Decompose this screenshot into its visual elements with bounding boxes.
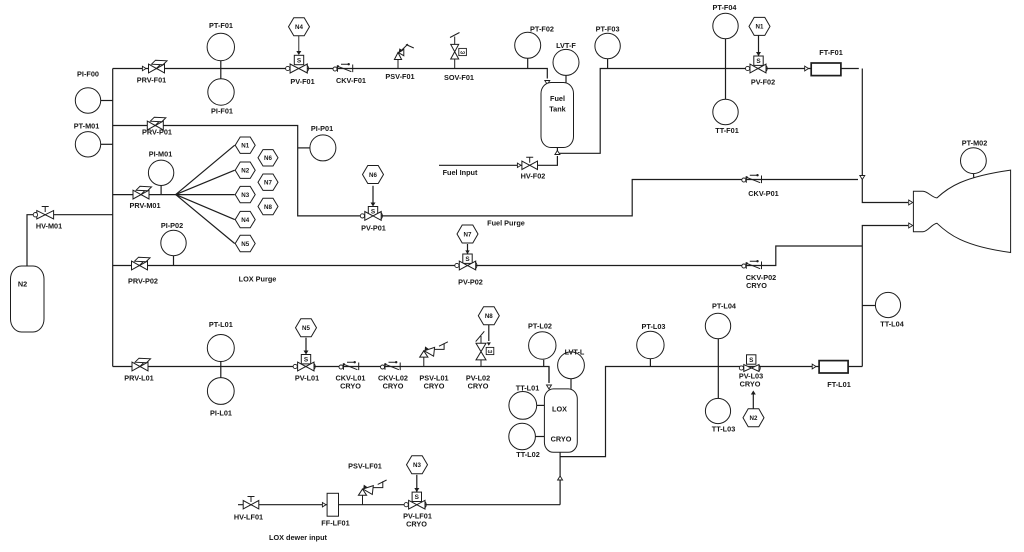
- fuel tank: [541, 83, 574, 148]
- gauge TT-L01: [509, 392, 537, 420]
- wire PI-M01 stem: [160, 186, 162, 195]
- svg-text:PI-P02: PI-P02: [161, 221, 183, 230]
- wire main manifold vertical: [112, 69, 114, 367]
- wire PT-F02 stem: [527, 58, 529, 68]
- wire PT-L04 TT-L03 stem: [717, 339, 719, 399]
- svg-text:N2: N2: [18, 280, 27, 289]
- hexagon N3 dewer: [407, 456, 428, 474]
- wire N1 to PV-F02: [758, 36, 760, 57]
- wire HV-M01 branch: [27, 215, 113, 266]
- gauge TT-L04: [875, 292, 900, 317]
- arrow fuel into junction: [860, 176, 865, 180]
- svg-text:LOX: LOX: [552, 405, 567, 414]
- svg-text:PV-L01: PV-L01: [295, 374, 319, 383]
- valve PV-L01: [298, 362, 314, 371]
- wire PT-M01 stem: [101, 143, 113, 145]
- svg-text:FF-LF01: FF-LF01: [321, 519, 349, 528]
- valve PRV-P01: [147, 121, 163, 130]
- wire fuel feed riser: [861, 69, 863, 176]
- wire PT-M02 stem: [973, 173, 975, 178]
- svg-text:N6: N6: [369, 172, 377, 179]
- svg-text:PV-P02: PV-P02: [458, 277, 483, 286]
- gauge PI-L01: [207, 378, 234, 405]
- wire PT-L03 stem: [649, 359, 651, 367]
- wire N8 to PV-L02: [488, 325, 490, 341]
- svg-text:LVT-L: LVT-L: [565, 348, 585, 357]
- gauge PT-M02: [961, 148, 987, 174]
- svg-text:PT-M02: PT-M02: [962, 139, 988, 148]
- wire engine ox inlet: [862, 226, 908, 247]
- relief valve PSV-L01: [423, 357, 425, 366]
- wire fuel tank outlet: [557, 69, 858, 154]
- hexagon N2 manifold: [235, 162, 255, 178]
- arrow into fuel tank bottom: [555, 151, 560, 155]
- wire PI-P02 stem: [173, 256, 175, 266]
- svg-text:CRYO: CRYO: [551, 435, 572, 444]
- svg-text:CKV-F01: CKV-F01: [336, 76, 366, 85]
- arrow into PV-F02 solenoid: [756, 52, 761, 56]
- filter FF-LF01: [327, 493, 338, 516]
- hexagon N2 lox: [743, 409, 764, 427]
- valve PRV-P02: [132, 261, 148, 270]
- gauge PT-F01: [207, 33, 234, 60]
- arrow into PV-F01 solenoid: [296, 51, 301, 55]
- gauge PT-L03: [637, 331, 664, 358]
- valve PRV-F01: [149, 64, 165, 73]
- svg-text:PT-F02: PT-F02: [530, 25, 554, 34]
- wire PI-F00 stem: [101, 100, 113, 102]
- svg-text:PSV-LF01: PSV-LF01: [348, 462, 382, 471]
- svg-text:TT-L01: TT-L01: [516, 384, 540, 393]
- hexagon N5 lox: [296, 319, 317, 337]
- svg-text:HV-LF01: HV-LF01: [234, 513, 263, 522]
- gauge PI-M01: [148, 160, 173, 185]
- wire N7 to PV-P02: [467, 244, 469, 254]
- arrow engine ox inlet: [909, 223, 913, 228]
- svg-text:LOX dewer input: LOX dewer input: [269, 533, 328, 542]
- gauge PI-P01: [310, 135, 336, 161]
- wire PT-F03 stem: [607, 59, 609, 69]
- solenoid box PV-LF01: [412, 492, 421, 501]
- valve PV-F02: [750, 64, 766, 73]
- svg-text:S: S: [465, 256, 470, 263]
- gauge LVT-F: [553, 49, 579, 75]
- svg-text:PSV-F01: PSV-F01: [385, 72, 414, 81]
- svg-text:N7: N7: [264, 180, 272, 187]
- check valve CKV-P02: [742, 264, 746, 268]
- wire N6 to PV-P01: [372, 186, 374, 205]
- arrow into PV-L01: [304, 351, 309, 355]
- svg-text:S: S: [756, 58, 761, 65]
- gauge LVT-L: [558, 352, 585, 379]
- svg-text:PI-M01: PI-M01: [149, 150, 173, 159]
- wire LVT-F stem: [565, 76, 567, 83]
- wire N3 to PV-LF01: [416, 475, 418, 492]
- svg-text:FT-L01: FT-L01: [827, 380, 851, 389]
- flow meter FT-F01: [811, 63, 841, 76]
- svg-text:PV-F01: PV-F01: [290, 77, 314, 86]
- svg-text:Fuel: Fuel: [550, 94, 565, 103]
- svg-text:PI-F01: PI-F01: [211, 107, 233, 116]
- hexagon N6 spare: [258, 150, 278, 166]
- wire fuel pressurization line: [113, 69, 548, 79]
- gauge PT-F03: [595, 33, 620, 58]
- gauge PT-L01: [207, 335, 234, 362]
- svg-text:LVT-F: LVT-F: [556, 41, 576, 50]
- svg-text:N4: N4: [241, 217, 249, 224]
- svg-text:PT-F04: PT-F04: [713, 3, 738, 12]
- hexagon N7 purge: [457, 225, 478, 243]
- svg-text:TT-L04: TT-L04: [880, 320, 904, 329]
- svg-text:CRYO: CRYO: [406, 519, 427, 528]
- svg-text:SOV-F01: SOV-F01: [444, 73, 474, 82]
- solenoid box PV-P02: [463, 254, 472, 263]
- gauge PI-F00: [75, 88, 100, 113]
- wire PT-L01 PI-L01 stem: [220, 362, 222, 378]
- wire LOX dewer input line: [238, 504, 560, 506]
- N2 bottle: [11, 266, 45, 332]
- svg-text:PT-M01: PT-M01: [74, 122, 100, 131]
- svg-text:PT-L04: PT-L04: [712, 302, 737, 311]
- svg-text:Tank: Tank: [549, 105, 566, 114]
- svg-text:PRV-P01: PRV-P01: [142, 128, 172, 137]
- svg-text:N3: N3: [241, 192, 249, 199]
- svg-text:FT-F01: FT-F01: [819, 48, 843, 57]
- valve HV-LF01: [243, 501, 259, 509]
- gauge TT-L02: [509, 423, 536, 450]
- valve HV-M01: [37, 211, 54, 219]
- svg-text:N8: N8: [485, 313, 493, 320]
- relief valve PSV-F01: [397, 60, 399, 69]
- svg-text:PI-P01: PI-P01: [311, 124, 333, 133]
- hexagon N4 manifold: [235, 211, 255, 227]
- svg-text:N6: N6: [264, 155, 272, 162]
- svg-text:PRV-L01: PRV-L01: [124, 374, 153, 383]
- arrow N2 into PV-L03: [751, 391, 756, 395]
- wire PRV-M01 manifold: [113, 194, 176, 196]
- wire fan line to N1: [176, 145, 235, 194]
- wire PT-F01 PI-F01 stem: [220, 61, 222, 79]
- svg-text:N5: N5: [302, 325, 310, 332]
- svg-text:N1: N1: [756, 24, 764, 31]
- svg-text:PT-L02: PT-L02: [528, 322, 552, 331]
- solenoid box PV-F02: [754, 56, 763, 65]
- svg-text:PI-F00: PI-F00: [77, 70, 99, 79]
- solenoid box PV-P01: [368, 207, 377, 216]
- svg-text:CKV-P01: CKV-P01: [748, 189, 778, 198]
- hexagon N1: [749, 17, 770, 35]
- svg-text:N2: N2: [750, 415, 758, 422]
- solenoid box PV-F01: [294, 55, 303, 64]
- hexagon N7 spare: [258, 174, 278, 190]
- hexagon N1 manifold: [235, 137, 255, 153]
- wire LOX tank bottom outlet: [559, 452, 561, 504]
- LOX tank: [544, 389, 577, 452]
- gauge TT-F01: [713, 99, 738, 124]
- svg-text:TT-L02: TT-L02: [516, 450, 540, 459]
- svg-text:TT-F01: TT-F01: [715, 126, 739, 135]
- hexagon N4: [289, 18, 310, 36]
- wire LOX feed line: [560, 367, 862, 457]
- wire fan line to N4: [176, 195, 235, 220]
- wire N2 to PV-L03: [752, 392, 754, 409]
- svg-text:PRV-F01: PRV-F01: [137, 76, 166, 85]
- relief valve PSV-LF01: [362, 495, 364, 504]
- svg-text:S: S: [749, 357, 754, 364]
- hexagon N3 manifold: [235, 186, 255, 202]
- arrow into PV-P01: [371, 203, 376, 207]
- svg-text:ω: ω: [460, 50, 465, 56]
- svg-text:CRYO: CRYO: [340, 382, 361, 391]
- flow arrow fuel input: [517, 163, 521, 167]
- svg-text:S: S: [304, 357, 309, 364]
- wire engine fuel inlet: [862, 180, 908, 203]
- gauge PT-F04: [713, 13, 738, 38]
- svg-text:CRYO: CRYO: [424, 382, 445, 391]
- arrow engine fuel inlet: [909, 200, 913, 205]
- gauge PT-L02: [529, 332, 556, 359]
- valve PRV-L01: [132, 362, 148, 371]
- flow arrow into FF-LF01: [322, 503, 326, 507]
- wire fuel purge line: [113, 126, 858, 216]
- svg-text:Fuel Input: Fuel Input: [443, 168, 478, 177]
- svg-text:PV-F02: PV-F02: [751, 78, 775, 87]
- wire LOX riser: [861, 246, 863, 367]
- wire PI-P01 stem: [298, 147, 310, 149]
- svg-text:N2: N2: [241, 168, 249, 175]
- svg-text:N1: N1: [241, 143, 249, 150]
- svg-text:N4: N4: [295, 24, 303, 31]
- svg-text:PT-L01: PT-L01: [209, 320, 233, 329]
- svg-text:PT-F01: PT-F01: [209, 21, 233, 30]
- check valve CKV-L02: [381, 365, 385, 369]
- svg-text:N8: N8: [264, 204, 272, 211]
- svg-text:N5: N5: [241, 241, 249, 248]
- wire TT-L04 stem: [862, 305, 875, 307]
- svg-text:N7: N7: [464, 231, 472, 238]
- wire LOX pressurization line: [113, 367, 549, 383]
- hexagon N8 lox: [478, 307, 499, 325]
- valve PV-L03: [744, 365, 759, 372]
- svg-text:S: S: [415, 494, 420, 501]
- gauge TT-L03: [705, 398, 730, 423]
- wire LVT-L stem: [570, 379, 572, 389]
- flow meter FT-L01: [819, 361, 848, 373]
- svg-text:S: S: [297, 57, 302, 64]
- valve SOV-F01: [451, 44, 459, 59]
- wire fan line to N3: [176, 194, 235, 196]
- svg-text:TT-L03: TT-L03: [712, 425, 736, 434]
- hexagon N6 purge: [363, 166, 384, 184]
- wire PT-F04 TT-F01 stem: [725, 39, 727, 100]
- svg-text:CRYO: CRYO: [746, 281, 767, 290]
- svg-text:HV-F02: HV-F02: [521, 172, 546, 181]
- svg-text:PT-L03: PT-L03: [642, 322, 666, 331]
- flow arrow into FT-F01: [805, 66, 809, 71]
- wire PT-L02 stem: [543, 360, 545, 367]
- gauge PT-F02: [515, 32, 541, 58]
- hexagon N5 manifold: [235, 235, 255, 251]
- svg-text:Fuel Purge: Fuel Purge: [487, 218, 525, 227]
- arrow into LOX tank bottom: [558, 476, 563, 480]
- wire fuel input line: [439, 156, 557, 165]
- gauge PT-M01: [75, 132, 100, 157]
- check valve CKV-F01: [333, 67, 337, 71]
- svg-text:PRV-P02: PRV-P02: [128, 277, 158, 286]
- valve HV-F02: [522, 161, 538, 169]
- wire LOX tank inlet drop: [548, 367, 550, 384]
- check valve CKV-L01: [339, 365, 343, 369]
- svg-text:PRV-M01: PRV-M01: [129, 201, 160, 210]
- svg-text:CRYO: CRYO: [740, 379, 761, 388]
- hexagon N8 spare: [258, 198, 278, 214]
- valve PV-L02: [476, 343, 486, 360]
- valve PV-P01: [365, 212, 381, 221]
- solenoid box PV-L03: [747, 355, 756, 364]
- gauge PT-L04: [705, 313, 730, 338]
- svg-text:PI-L01: PI-L01: [210, 409, 232, 418]
- valve PV-P02: [459, 261, 475, 270]
- wire N5 to PV-L01: [305, 338, 307, 354]
- svg-text:N3: N3: [413, 462, 421, 469]
- svg-text:ω: ω: [488, 349, 493, 355]
- wire TT-L01 stem: [537, 404, 545, 406]
- check valve CKV-P01: [742, 178, 746, 182]
- svg-text:LOX Purge: LOX Purge: [239, 275, 277, 284]
- svg-text:CRYO: CRYO: [468, 382, 489, 391]
- arrow into PV-LF01: [414, 488, 419, 492]
- svg-text:CRYO: CRYO: [383, 382, 404, 391]
- gauge PI-F01: [208, 79, 234, 105]
- arrow into fuel tank: [545, 81, 550, 85]
- svg-text:PV-P01: PV-P01: [361, 224, 386, 233]
- wire fan line to N5: [176, 195, 235, 244]
- valve PRV-M01: [133, 190, 149, 199]
- gauge PI-P02: [161, 230, 186, 255]
- wire LOX purge line: [113, 246, 863, 266]
- wire fan line to N2: [176, 170, 235, 194]
- svg-text:PT-F03: PT-F03: [596, 25, 620, 34]
- flow arrow into FT-L01: [812, 364, 816, 369]
- solenoid box PV-L01: [301, 355, 310, 364]
- valve PV-F01: [290, 64, 307, 73]
- svg-text:HV-M01: HV-M01: [36, 222, 62, 231]
- valve PV-LF01: [409, 500, 425, 509]
- arrow into LOX tank: [547, 385, 552, 389]
- wire TT-L02 stem: [536, 436, 545, 438]
- rocket engine: [913, 170, 1010, 252]
- flow arrow: [142, 66, 146, 70]
